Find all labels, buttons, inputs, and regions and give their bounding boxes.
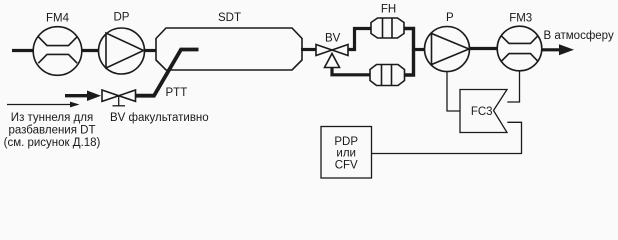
arrowhead exhaust <box>559 44 574 55</box>
svg-text:PDP: PDP <box>334 136 358 148</box>
probe PTT <box>136 50 199 96</box>
svg-text:или: или <box>336 148 356 160</box>
svg-text:BV: BV <box>325 33 341 45</box>
pipe riser-P <box>412 48 426 51</box>
valve stem <box>118 96 120 106</box>
svg-text:Из туннеля для: Из туннеля для <box>11 112 93 124</box>
filter FH upper <box>371 18 404 38</box>
svg-text:(см. рисунок Д.18): (см. рисунок Д.18) <box>4 137 101 149</box>
pipe BV to upper branch <box>348 29 371 50</box>
pipe FM4-DP <box>81 49 99 52</box>
arrow dilution inlet (thick) <box>65 94 88 97</box>
svg-text:FC3: FC3 <box>471 106 493 118</box>
svg-text:FM3: FM3 <box>509 13 532 25</box>
svg-text:P: P <box>446 12 454 24</box>
pipe P-FM3 <box>469 47 498 50</box>
pipe inlet <box>12 49 35 52</box>
pump DP <box>99 28 145 74</box>
pipe right riser joining branches <box>404 29 414 76</box>
svg-text:SDT: SDT <box>218 12 241 24</box>
arrow note (thin) <box>7 104 71 106</box>
svg-text:разбавления DT: разбавления DT <box>8 125 95 137</box>
control line P-FC3 <box>447 72 460 112</box>
valve BV (three-way) <box>316 45 348 68</box>
box PDP/CFV <box>321 127 372 179</box>
svg-text:FM4: FM4 <box>46 13 70 25</box>
svg-text:DP: DP <box>114 12 130 24</box>
pipe SDT-BV <box>301 48 316 51</box>
pipe exhaust outlet <box>542 48 562 51</box>
valve BV optional <box>102 90 136 101</box>
svg-text:PTT: PTT <box>166 87 188 99</box>
filter FH lower <box>370 65 405 86</box>
flow controller FC3 <box>460 90 507 133</box>
flow meter FM4 <box>33 27 82 76</box>
control line FM3-FC3 <box>507 71 519 102</box>
control line FC3-PDP <box>372 122 522 153</box>
pipe BV to lower branch <box>332 67 370 75</box>
pump P <box>425 27 470 72</box>
svg-text:CFV: CFV <box>335 160 358 172</box>
svg-text:BV факультативно: BV факультативно <box>110 112 209 124</box>
svg-text:В атмосферу: В атмосферу <box>544 30 614 42</box>
svg-text:FH: FH <box>381 4 396 16</box>
dilution tunnel SDT <box>156 28 302 70</box>
pipe DP-SDT <box>144 49 157 52</box>
flow meter FM3 <box>497 26 542 71</box>
